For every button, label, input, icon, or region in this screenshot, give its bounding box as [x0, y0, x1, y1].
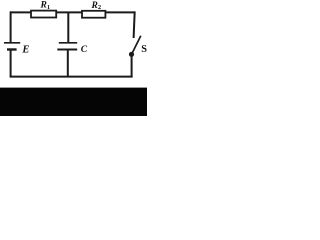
capacitor C top plate [59, 42, 77, 44]
wire left vertical (battery to bottom wire) [10, 51, 12, 78]
wire top (node between R1, R2, C branch, switch branch) [10, 11, 135, 13]
resistor R2 (box) [82, 11, 105, 18]
battery E top plate (long, positive) [4, 42, 20, 44]
switch S pivot dot (junction) [129, 52, 134, 57]
switch S blade [132, 36, 141, 55]
wire right vertical upper (top wire to switch fixed contact) [134, 11, 135, 38]
black bar at page bottom [0, 88, 147, 116]
svg-text:E: E [21, 45, 29, 56]
wire bottom [10, 76, 133, 78]
capacitor C bottom plate [57, 49, 77, 51]
wire capacitor branch lower (C down to bottom wire) [67, 50, 69, 78]
wire left vertical (top wire to battery) [10, 11, 12, 42]
resistor R1 (box) [31, 11, 56, 18]
svg-text:S: S [141, 44, 147, 55]
wire capacitor branch upper (top wire down to C) [67, 12, 69, 42]
battery E bottom plate (short, thick, negative) [7, 48, 17, 50]
wire right vertical lower (switch dot to bottom wire) [131, 54, 133, 77]
background [0, 0, 147, 116]
svg-text:C: C [81, 45, 88, 55]
